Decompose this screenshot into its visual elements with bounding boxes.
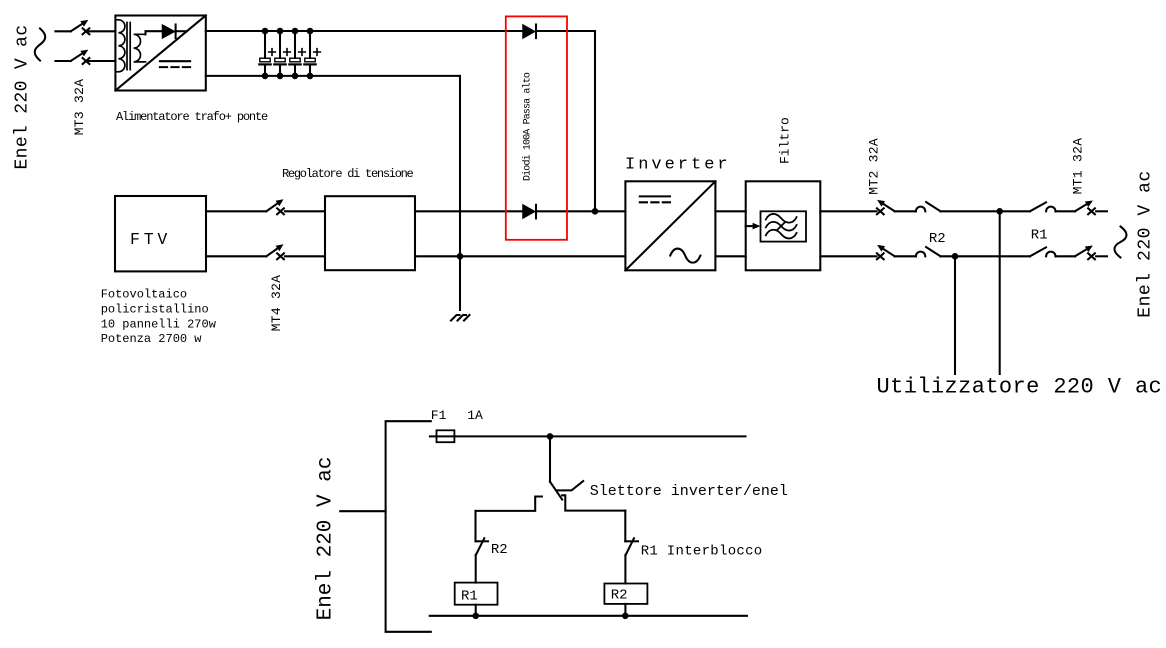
svg-text:Filtro: Filtro [778, 117, 793, 164]
node coil R2 rail [622, 613, 629, 620]
svg-text:Alimentatore trafo+ ponte: Alimentatore trafo+ ponte [116, 110, 268, 124]
DC symbol inside power supply [160, 60, 190, 62]
selector switch lever [558, 481, 584, 490]
wire R1 to MT1 top [1056, 210, 1075, 212]
relay coil R2 box [604, 584, 647, 604]
filter inner symbol box [761, 211, 807, 241]
wire R1 to MT1 bottom [1056, 255, 1075, 257]
transformer T1 secondary winding [134, 34, 146, 62]
relay coil R1 box [455, 583, 498, 605]
diode block red outline [506, 16, 567, 239]
wire selector common [549, 436, 551, 481]
wire right branch down [624, 511, 626, 542]
wire fuse input [430, 435, 437, 437]
contact R2 pole 1 arc [916, 207, 925, 212]
filter symbol wave 3 [766, 230, 797, 239]
wire DC- from power supply [206, 75, 460, 77]
breaker MT2 pole 1 x-mark [877, 208, 884, 214]
svg-text:R1: R1 [461, 589, 478, 605]
capacitor C3 [289, 28, 305, 79]
svg-text:R2: R2 [611, 588, 628, 604]
breaker MT3 pole 1 x-mark [83, 28, 90, 34]
wire MT1 to Enel right bottom [1096, 255, 1107, 257]
breaker MT4 pole 1 blade [264, 197, 285, 214]
wire L1 phase from Enel source [55, 30, 70, 32]
wire coil R1 to rail [475, 605, 477, 616]
wire filter output bottom [820, 255, 876, 257]
wire MT2 to contact R2 bottom [895, 255, 916, 257]
photovoltaic panel FTV box [115, 196, 206, 271]
svg-text:Enel 220 V ac: Enel 220 V ac [315, 457, 338, 621]
breaker MT2 pole 2 x-mark [877, 253, 884, 259]
svg-text:R2: R2 [929, 231, 946, 247]
transformer T1 primary winding [116, 20, 125, 72]
breaker MT1 pole 2 x-mark [1088, 253, 1095, 259]
contact R2 (interlock) blade [476, 538, 485, 555]
transformer T1 core [127, 23, 130, 70]
diode D3 inside power supply [146, 31, 163, 34]
node at D1/D2 junction [592, 208, 599, 215]
svg-text:Slettore inverter/enel: Slettore inverter/enel [590, 483, 788, 500]
filter symbol arrow [746, 225, 753, 227]
wire filter output top [820, 210, 876, 212]
filter symbol wave 1 [766, 214, 797, 223]
wire contact R2 to node bottom [941, 255, 1030, 257]
power supply U1 Alimentatore box [115, 16, 205, 91]
svg-text:policristallino: policristallino [101, 302, 209, 316]
breaker MT3 pole 2 x-mark [83, 58, 90, 64]
wire inverter output bottom [715, 255, 745, 257]
breaker MT4 pole 1 x-mark [277, 208, 284, 214]
svg-text:R2: R2 [491, 542, 508, 558]
wire fuse to selector rail [454, 435, 745, 437]
node ground junction [457, 253, 464, 260]
wire regulator output bottom to inverter [415, 255, 625, 257]
diode D1 Passa alto top [523, 25, 535, 38]
svg-text:Enel 220 V ac: Enel 220 V ac [1136, 170, 1156, 318]
wire to relay coil R2 [624, 555, 626, 583]
contact R2 pole 1 blade [926, 202, 940, 211]
wire utilizzatore drop left [954, 256, 956, 374]
contact R1 (interlock) blade [626, 538, 634, 555]
inverter U2 box [625, 181, 715, 270]
node selector feed [547, 433, 554, 440]
svg-text:MT4 32A: MT4 32A [269, 275, 284, 332]
inverter U2 diagonal [625, 181, 715, 270]
wire from D1 cathode [536, 30, 595, 32]
capacitor C2 [274, 28, 290, 79]
wire FTV output bottom [206, 255, 266, 257]
wire regulator output top to diode D2 [415, 210, 523, 212]
breaker MT2 pole 1 blade [875, 197, 896, 214]
wire left branch down [474, 511, 476, 541]
svg-text:10 pannelli 270w: 10 pannelli 270w [101, 317, 217, 331]
svg-text:Potenza 2700 w: Potenza 2700 w [101, 332, 203, 346]
contact R1 pole 1 blade [1030, 202, 1046, 211]
breaker MT3 pole 1 blade [69, 17, 90, 34]
filter symbol wave 2 [766, 222, 797, 231]
wire MT1 to Enel right top [1096, 210, 1107, 212]
wire to trafo input top [88, 30, 115, 32]
fuse F1 [437, 435, 455, 437]
inverter AC sine symbol [670, 249, 700, 263]
svg-text:MT1 32A: MT1 32A [1071, 138, 1086, 195]
selector switch blade [550, 482, 562, 500]
svg-text:Enel 220 V ac: Enel 220 V ac [13, 25, 33, 170]
svg-text:R1: R1 [1031, 228, 1048, 244]
wire MT4 to regulator bottom [285, 255, 325, 257]
svg-text:Fotovoltaico: Fotovoltaico [101, 288, 187, 302]
diode D2 Passa alto bottom [523, 205, 535, 218]
AC source tilde (Enel left) [35, 29, 46, 61]
wire bottom return rail [430, 615, 747, 617]
filter box Filtro [746, 181, 821, 270]
selector left throw terminal [476, 497, 542, 511]
selector right throw terminal [562, 495, 625, 510]
inverter DC symbol [640, 195, 670, 197]
ground [451, 315, 470, 321]
contact R2 pole 2 blade [926, 247, 940, 256]
breaker MT1 pole 1 blade [1073, 198, 1094, 214]
node utilizzatore top [996, 208, 1003, 215]
svg-text:1A: 1A [467, 408, 483, 423]
wire coil R2 to rail [624, 604, 626, 616]
svg-text:R1 Interblocco: R1 Interblocco [641, 544, 763, 560]
breaker MT3 pole 2 blade [69, 47, 90, 64]
svg-text:MT3 32A: MT3 32A [72, 79, 87, 136]
contact R1 pole 2 arc [1046, 252, 1055, 257]
wire DC+ rail from power supply to diode block [206, 30, 523, 32]
power supply U1 diagonal [115, 16, 205, 91]
breaker MT1 pole 2 blade [1073, 243, 1094, 259]
wire to relay coil R1 [475, 555, 477, 583]
wire utilizzatore drop right [999, 211, 1001, 374]
Enel feed bracket (bottom circuit) [386, 421, 431, 632]
wire DC- down to ground [459, 76, 461, 310]
capacitor C4 [304, 28, 320, 79]
Enel feed stub [340, 510, 385, 512]
voltage regulator box [325, 196, 415, 270]
breaker MT4 pole 2 blade [264, 242, 285, 259]
svg-text:Diodi 100A Passa alto: Diodi 100A Passa alto [522, 72, 534, 181]
svg-text:Utilizzatore 220 V ac: Utilizzatore 220 V ac [877, 374, 1163, 399]
contact R1 pole 1 arc [1046, 207, 1055, 212]
wire L2 phase from Enel source [55, 60, 70, 62]
breaker MT4 pole 2 x-mark [277, 253, 284, 259]
capacitor C1 [259, 28, 275, 79]
svg-text:F1: F1 [431, 408, 447, 423]
node coil R1 rail [472, 613, 479, 620]
node utilizzatore bottom [952, 253, 959, 260]
svg-text:FTV: FTV [130, 230, 171, 249]
wire MT2 to contact R2 top [895, 210, 916, 212]
breaker MT1 pole 1 x-mark [1088, 208, 1095, 214]
breaker MT2 pole 2 blade [875, 242, 896, 259]
contact R2 (interlock) stub [476, 540, 489, 542]
wire vertical D1 output down to inverter rail [594, 31, 596, 211]
wire MT4 to regulator top [285, 210, 325, 212]
contact R1 pole 2 blade [1030, 247, 1046, 256]
wire contact R2 to node top [941, 210, 1030, 212]
wire inverter output top [715, 210, 745, 212]
svg-text:MT2 32A: MT2 32A [867, 138, 882, 195]
wire FTV output top [206, 210, 266, 212]
wire D2 cathode to inverter [536, 210, 625, 212]
svg-text:Regolatore di tensione: Regolatore di tensione [282, 167, 414, 181]
contact R1 (interlock) stub [625, 540, 638, 542]
wire to trafo input bottom [88, 60, 115, 62]
svg-text:Inverter: Inverter [625, 156, 731, 175]
contact R2 pole 2 arc [916, 252, 925, 257]
AC source tilde (Enel right) [1115, 227, 1127, 258]
filter symbol slash [777, 223, 784, 230]
